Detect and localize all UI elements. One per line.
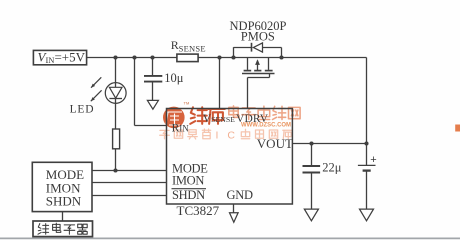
svg-text:PMOS: PMOS [241,30,275,44]
svg-text:VIN=+5V: VIN=+5V [38,49,86,65]
svg-text:SHDN: SHDN [172,188,205,202]
svg-text:I C: I C [216,129,238,141]
svg-text:VSENSE: VSENSE [203,113,235,125]
svg-text:+: + [370,154,376,166]
svg-text:SHDN: SHDN [46,194,82,209]
svg-text:LED: LED [70,103,95,115]
svg-text:VOUT: VOUT [257,136,293,151]
svg-text:RIN: RIN [172,123,190,135]
svg-text:TC3827: TC3827 [177,203,220,218]
svg-text:SENSE: SENSE [179,44,206,54]
svg-text:GND: GND [227,188,253,202]
svg-text:10μ: 10μ [164,71,184,85]
svg-text:22μ: 22μ [322,161,342,175]
svg-text:TM: TM [184,101,190,106]
svg-text:VDRV: VDRV [236,113,269,125]
svg-text:IMON: IMON [172,173,204,187]
